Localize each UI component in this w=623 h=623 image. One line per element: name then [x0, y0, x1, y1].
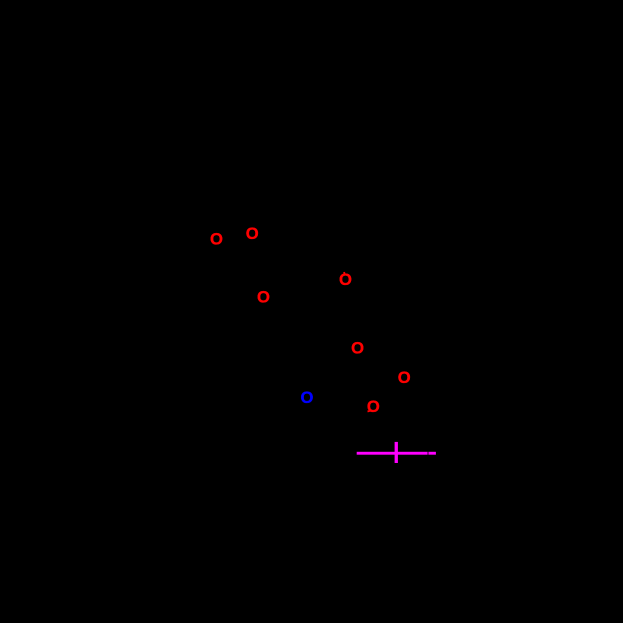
bond C-I left segment (magenta): [357, 452, 428, 455]
bond stub at O3 top (red half-bond): [343, 272, 345, 275]
svg-text:O: O: [339, 270, 352, 289]
svg-text:O: O: [301, 388, 314, 407]
svg-text:O: O: [246, 224, 259, 243]
bond I-C right segment (magenta): [428, 452, 436, 455]
svg-text:O: O: [367, 397, 380, 416]
svg-text:O: O: [351, 339, 364, 358]
svg-text:O: O: [398, 368, 411, 387]
svg-text:O: O: [257, 288, 270, 307]
svg-text:O: O: [210, 229, 223, 248]
bond stub at O7 lower-left (red half-bond): [368, 410, 372, 411]
atom I iodine vertical bar (magenta): [395, 442, 398, 463]
